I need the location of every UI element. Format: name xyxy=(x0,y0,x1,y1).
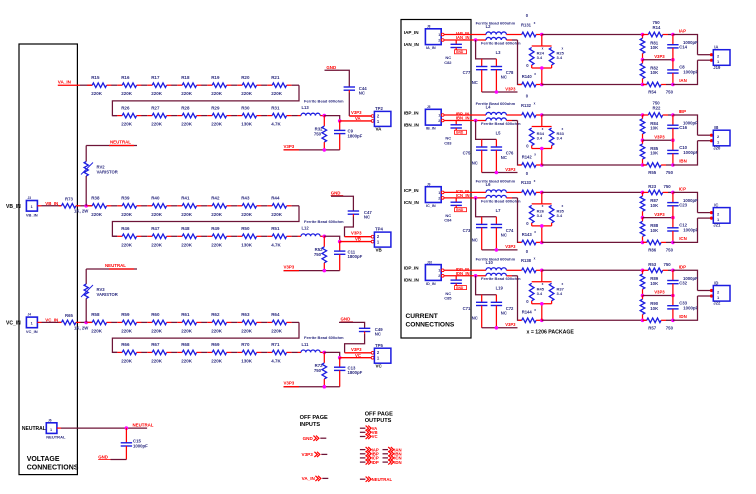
wire ICN xyxy=(512,197,518,199)
wire IDN xyxy=(512,275,518,277)
svg-text:Ferrite Bead 600ohm: Ferrite Bead 600ohm xyxy=(481,40,521,45)
wire xyxy=(141,205,147,207)
resistor R43 220K xyxy=(237,205,242,207)
svg-text:V3P3: V3P3 xyxy=(505,167,516,172)
svg-text:4.7K: 4.7K xyxy=(271,242,281,247)
svg-text:IBN_IN: IBN_IN xyxy=(404,122,420,127)
svg-text:R26: R26 xyxy=(121,105,130,110)
wire xyxy=(261,351,267,353)
wire xyxy=(201,205,207,207)
svg-text:220K: 220K xyxy=(151,358,163,363)
svg-text:220K: 220K xyxy=(151,328,163,333)
resistor R26 3.4 xyxy=(541,192,543,204)
svg-text:L10: L10 xyxy=(486,260,494,265)
svg-text:1000pF: 1000pF xyxy=(683,150,698,155)
wire xyxy=(231,235,237,237)
svg-text:R69: R69 xyxy=(211,342,220,347)
svg-text:R144: R144 xyxy=(522,310,533,315)
svg-text:220K: 220K xyxy=(241,91,253,96)
svg-text:Ferrite Bead 600ohm: Ferrite Bead 600ohm xyxy=(481,198,521,203)
resistor R138 0ohm xyxy=(522,268,536,273)
off-page output IDP xyxy=(360,461,366,463)
wire xyxy=(141,84,147,86)
svg-text:R140: R140 xyxy=(522,74,533,79)
resistor R26 220K xyxy=(117,115,122,117)
svg-text:CONNECTIONS: CONNECTIONS xyxy=(27,465,79,472)
svg-text:IC: IC xyxy=(714,203,718,208)
resistor R144 0ohm xyxy=(518,319,521,321)
resistor R47 220K xyxy=(147,235,152,237)
svg-text:220K: 220K xyxy=(271,212,283,217)
svg-text:R14: R14 xyxy=(653,25,661,30)
svg-text:R133: R133 xyxy=(521,180,532,185)
resistor R23 750 xyxy=(643,191,649,193)
node ICN junction xyxy=(540,241,544,245)
svg-text:IDP: IDP xyxy=(372,460,379,465)
resistor R82 10K xyxy=(642,60,644,64)
svg-text:C77: C77 xyxy=(463,70,471,75)
svg-text:IA_IN: IA_IN xyxy=(426,46,436,50)
wire xyxy=(201,115,207,117)
svg-text:3.4: 3.4 xyxy=(537,291,543,296)
svg-text:V3P3: V3P3 xyxy=(505,86,516,91)
resistor R57 750 xyxy=(643,319,647,321)
svg-text:VC_IN: VC_IN xyxy=(26,329,38,334)
resistor R21 220K xyxy=(267,84,272,86)
svg-text:3.4: 3.4 xyxy=(557,213,563,218)
svg-text:V3P3: V3P3 xyxy=(654,212,665,217)
wire V3P3 rail xyxy=(284,386,340,388)
resistor R87 10K xyxy=(642,192,644,196)
svg-text:R63: R63 xyxy=(241,312,250,317)
svg-text:R55: R55 xyxy=(648,170,656,175)
wire xyxy=(201,351,207,353)
svg-text:3.4: 3.4 xyxy=(557,136,563,141)
svg-text:10K: 10K xyxy=(650,45,659,50)
resistor R17 220K xyxy=(147,84,152,86)
svg-text:NEUTRAL: NEUTRAL xyxy=(133,423,154,428)
node VC junction A xyxy=(323,351,327,355)
ferrite bead L2 600ohm xyxy=(486,32,506,35)
svg-text:TP2: TP2 xyxy=(375,106,383,111)
wire xyxy=(261,205,267,207)
current connections group box xyxy=(401,20,471,339)
wire IDP_IN xyxy=(444,269,486,271)
svg-text:R51: R51 xyxy=(271,226,280,231)
svg-text:J6: J6 xyxy=(48,419,52,423)
wire IBN_IN xyxy=(444,120,486,122)
svg-text:750: 750 xyxy=(666,326,674,331)
resistor R40 220K xyxy=(147,205,152,207)
resistor R65 1K 2W xyxy=(59,321,62,323)
resistor R67 220K xyxy=(147,351,152,353)
svg-text:220K: 220K xyxy=(121,358,133,363)
resistor R31 4.7K xyxy=(267,115,272,117)
svg-text:Ferrite Bead 600ohm: Ferrite Bead 600ohm xyxy=(304,98,344,103)
svg-text:R60: R60 xyxy=(151,312,160,317)
svg-text:R54: R54 xyxy=(648,90,656,95)
wire xyxy=(112,351,117,353)
resistor R89 10K xyxy=(642,270,644,274)
svg-text:NEUTRAL: NEUTRAL xyxy=(105,263,126,268)
resistor R132 0ohm xyxy=(522,113,536,118)
svg-text:VC: VC xyxy=(355,353,361,358)
svg-text:R21: R21 xyxy=(271,75,280,80)
resistor R44 220K xyxy=(267,205,272,207)
wire xyxy=(111,321,117,323)
wire xyxy=(231,321,237,323)
svg-text:R47: R47 xyxy=(151,226,160,231)
svg-text:NC: NC xyxy=(472,316,478,321)
svg-text:220K: 220K xyxy=(181,358,193,363)
node VB junction A xyxy=(323,235,327,239)
node IDN out junction xyxy=(671,319,675,323)
svg-text:ICN_IN: ICN_IN xyxy=(404,200,420,205)
svg-text:220K: 220K xyxy=(181,242,193,247)
wire xyxy=(141,115,147,117)
ferrite bead L3 600ohm xyxy=(486,37,506,40)
svg-text:J19: J19 xyxy=(713,65,721,70)
svg-text:Ferrite Bead 600ohm: Ferrite Bead 600ohm xyxy=(481,121,521,126)
svg-text:IAP: IAP xyxy=(679,29,686,34)
wire xyxy=(141,321,147,323)
wire IBP_IN xyxy=(444,114,486,116)
wire V3P3 rail xyxy=(482,249,518,251)
node IBP junction xyxy=(540,113,544,117)
resistor R131 0ohm xyxy=(522,32,536,37)
svg-text:3.4: 3.4 xyxy=(537,136,543,141)
svg-text:220K: 220K xyxy=(211,212,223,217)
svg-text:R15: R15 xyxy=(91,75,100,80)
wire V3P3 to test point xyxy=(345,236,372,238)
svg-text:R43: R43 xyxy=(241,196,250,201)
svg-text:VB_IN: VB_IN xyxy=(26,213,38,218)
off-page output ICP xyxy=(360,457,366,459)
svg-text:x: x xyxy=(562,282,564,286)
wire ICP_IN xyxy=(444,191,486,193)
node IDN junction xyxy=(474,274,478,278)
node IDN junction xyxy=(540,319,544,323)
svg-text:1000pF: 1000pF xyxy=(683,228,698,233)
resistor R143 0ohm xyxy=(518,241,521,243)
svg-text:NEUTRAL: NEUTRAL xyxy=(22,426,46,432)
junction node VB neutral tap xyxy=(84,204,88,208)
svg-text:220K: 220K xyxy=(211,242,223,247)
off-page output VC xyxy=(360,436,366,438)
node IAP out junction xyxy=(671,33,675,37)
svg-text:VA: VA xyxy=(355,116,361,121)
svg-text:C85: C85 xyxy=(444,296,452,301)
svg-text:220K: 220K xyxy=(151,91,163,96)
node VA junction B xyxy=(338,119,342,123)
svg-text:Ferrite Bead 600ohm: Ferrite Bead 600ohm xyxy=(476,178,516,183)
wire xyxy=(171,321,177,323)
resistor R58 220K xyxy=(87,321,92,323)
svg-text:NC: NC xyxy=(501,232,507,237)
svg-text:3.4: 3.4 xyxy=(557,291,563,296)
svg-text:3.4: 3.4 xyxy=(537,55,543,60)
svg-text:4.7K: 4.7K xyxy=(271,358,281,363)
svg-text:220K: 220K xyxy=(241,212,253,217)
wire ICN xyxy=(542,241,647,243)
resistor R25 3.4 xyxy=(549,48,554,66)
node ICP out junction xyxy=(671,191,675,195)
svg-text:R57: R57 xyxy=(648,326,656,331)
wire xyxy=(261,115,267,117)
capacitor C71 NC xyxy=(476,276,497,295)
svg-text:GND: GND xyxy=(456,50,464,54)
node ICP junction xyxy=(540,191,544,195)
svg-text:V3P3: V3P3 xyxy=(351,110,362,115)
resistor R54 750 xyxy=(643,84,647,86)
svg-text:10K: 10K xyxy=(650,203,659,208)
node VA junction A xyxy=(323,114,327,118)
wire IBN xyxy=(512,120,518,122)
node IDP junction xyxy=(540,269,544,273)
svg-text:10K: 10K xyxy=(650,228,659,233)
svg-text:3.4: 3.4 xyxy=(557,55,563,60)
svg-text:R41: R41 xyxy=(181,196,190,201)
ferrite bead L5 600ohm xyxy=(486,118,506,121)
node IAN junction xyxy=(474,38,478,42)
resistor R71 4.7K xyxy=(267,351,272,353)
wire xyxy=(261,235,267,237)
svg-text:VC: VC xyxy=(376,363,383,368)
svg-text:INPUTS: INPUTS xyxy=(300,422,321,428)
wire xyxy=(171,205,177,207)
wire xyxy=(324,236,339,241)
svg-text:C75: C75 xyxy=(463,151,471,156)
resistor R133 0ohm xyxy=(522,190,536,195)
resistor R62 220K xyxy=(207,321,212,323)
svg-text:2: 2 xyxy=(438,38,440,42)
svg-text:x: x xyxy=(534,72,536,76)
svg-text:VC_IN: VC_IN xyxy=(6,321,21,327)
wire IDN xyxy=(542,319,647,321)
svg-text:NC: NC xyxy=(501,155,507,160)
capacitor C13 1800pF xyxy=(339,358,341,368)
svg-text:10K: 10K xyxy=(650,306,659,311)
svg-text:J20: J20 xyxy=(713,145,721,150)
svg-text:220K: 220K xyxy=(91,212,103,217)
wire V3P3 mid xyxy=(641,58,645,62)
ferrite bead L12 600ohm xyxy=(298,235,302,237)
svg-text:R23: R23 xyxy=(648,184,656,189)
svg-text:J10: J10 xyxy=(427,260,433,264)
voltage connections group box xyxy=(19,44,77,475)
wire IBP to connector xyxy=(673,115,698,135)
svg-text:TP5: TP5 xyxy=(375,343,383,348)
node ICN junction xyxy=(474,196,478,200)
svg-text:CONNECTIONS: CONNECTIONS xyxy=(406,322,455,329)
svg-text:1000pF: 1000pF xyxy=(683,306,698,311)
resistor R29 220K xyxy=(207,115,212,117)
svg-text:VB_IN: VB_IN xyxy=(6,204,21,210)
capacitor C8 1000pF xyxy=(672,60,674,70)
svg-text:Ferrite Bead 600ohm: Ferrite Bead 600ohm xyxy=(476,101,516,106)
resistor R61 220K xyxy=(177,321,182,323)
resistor R32 750 xyxy=(323,116,325,127)
svg-text:IA: IA xyxy=(714,45,718,50)
svg-text:220K: 220K xyxy=(181,91,193,96)
resistor R63 220K xyxy=(237,321,242,323)
svg-text:750: 750 xyxy=(314,252,322,257)
svg-text:R18: R18 xyxy=(181,75,190,80)
svg-text:VOLTAGE: VOLTAGE xyxy=(27,456,60,463)
node IAP junction xyxy=(540,33,544,37)
svg-text:C78: C78 xyxy=(506,70,514,75)
svg-text:R61: R61 xyxy=(181,312,190,317)
svg-text:V3P3: V3P3 xyxy=(654,134,665,139)
varistor RV3 xyxy=(85,269,87,284)
svg-text:R30: R30 xyxy=(241,105,250,110)
capacitor C73 NC xyxy=(476,198,497,217)
resistor R22 750 xyxy=(643,114,649,116)
wire xyxy=(141,235,147,237)
wire serpentine return xyxy=(292,205,299,207)
svg-text:NC: NC xyxy=(501,310,507,315)
wire IAP_IN xyxy=(444,34,486,36)
svg-text:R142: R142 xyxy=(522,154,533,159)
test point TP5 xyxy=(371,351,374,354)
svg-text:IDP_IN: IDP_IN xyxy=(404,266,419,271)
svg-text:V3P3: V3P3 xyxy=(351,231,362,236)
svg-text:x: x xyxy=(534,257,536,261)
svg-text:220K: 220K xyxy=(121,328,133,333)
node IAN bottom junction xyxy=(641,83,645,87)
svg-text:NC: NC xyxy=(472,238,478,243)
resistor R34 3.4 xyxy=(541,115,543,127)
svg-text:3.4: 3.4 xyxy=(537,213,543,218)
svg-text:VARISTOR: VARISTOR xyxy=(97,170,118,175)
wire NEUTRAL xyxy=(57,427,61,429)
test point TP4 xyxy=(371,235,374,238)
svg-text:1: 1 xyxy=(438,33,440,37)
capacitor C23 1000pF xyxy=(672,192,674,202)
wire xyxy=(171,235,177,237)
svg-text:2: 2 xyxy=(438,119,440,123)
svg-text:C32: C32 xyxy=(679,280,687,285)
resistor R70 130K xyxy=(237,351,242,353)
svg-text:750: 750 xyxy=(664,184,672,189)
svg-text:1: 1 xyxy=(438,191,440,195)
resistor R15 220K xyxy=(87,84,92,86)
svg-text:OFF PAGE: OFF PAGE xyxy=(365,411,393,417)
svg-text:V3P3: V3P3 xyxy=(654,54,665,59)
node IBP out junction xyxy=(671,113,675,117)
resistor R19 220K xyxy=(207,84,212,86)
wire xyxy=(111,84,117,86)
svg-text:R131: R131 xyxy=(521,22,532,27)
wire VA to test point xyxy=(340,120,372,122)
svg-text:NC: NC xyxy=(472,80,478,85)
node ICN out junction xyxy=(671,241,675,245)
svg-text:V3P3: V3P3 xyxy=(351,347,362,352)
svg-text:x: x xyxy=(534,179,536,183)
svg-text:R67: R67 xyxy=(151,342,160,347)
resistor R39 220K xyxy=(117,205,122,207)
capacitor C76 NC xyxy=(495,139,497,147)
wire xyxy=(231,351,237,353)
resistor R16 220K xyxy=(117,84,122,86)
svg-text:x: x xyxy=(562,127,564,131)
svg-text:GND: GND xyxy=(98,454,108,459)
svg-text:IB_IN: IB_IN xyxy=(426,127,436,131)
svg-text:x: x xyxy=(562,204,564,208)
svg-text:J8: J8 xyxy=(427,25,431,29)
wire xyxy=(171,115,177,117)
connector J20 IB xyxy=(710,134,713,137)
resistor R28 220K xyxy=(177,115,182,117)
svg-text:R17: R17 xyxy=(151,75,160,80)
resistor R52 750 xyxy=(323,236,325,247)
capacitor C74 NC xyxy=(495,217,497,225)
resistor R68 220K xyxy=(177,351,182,353)
svg-text:L5: L5 xyxy=(496,130,502,135)
svg-text:J9: J9 xyxy=(427,183,431,187)
off-page output NEUTRAL xyxy=(360,478,366,480)
resistor R88 10K xyxy=(642,218,644,222)
svg-text:L19: L19 xyxy=(496,286,504,291)
svg-text:Ferrite Bead 600ohm: Ferrite Bead 600ohm xyxy=(476,256,516,261)
svg-text:220K: 220K xyxy=(271,328,283,333)
capacitor C47 NC xyxy=(331,196,353,211)
node IDP to divider xyxy=(641,269,645,273)
svg-text:1: 1 xyxy=(31,205,33,209)
capacitor C85 NC to GND xyxy=(455,276,457,280)
ferrite bead L11 600ohm xyxy=(298,351,302,353)
svg-text:R46: R46 xyxy=(121,226,130,231)
svg-text:Ferrite Bead 600ohm: Ferrite Bead 600ohm xyxy=(304,335,344,340)
svg-text:GND: GND xyxy=(331,190,341,195)
ferrite bead L4 600ohm xyxy=(486,112,506,115)
svg-text:OFF PAGE: OFF PAGE xyxy=(300,415,328,421)
svg-text:VA: VA xyxy=(376,127,383,132)
wire xyxy=(201,321,207,323)
wire V3P3 mid xyxy=(641,138,645,142)
connector J22 ID xyxy=(710,289,713,292)
wire V3P3 rail xyxy=(482,327,518,329)
svg-text:ICN: ICN xyxy=(679,236,687,241)
svg-text:1800pF: 1800pF xyxy=(348,254,363,259)
svg-text:220K: 220K xyxy=(181,328,193,333)
svg-text:Ferrite Bead 600ohm: Ferrite Bead 600ohm xyxy=(481,276,521,281)
capacitor C11 1800pF xyxy=(339,242,341,252)
node NEUTRAL junction xyxy=(125,426,129,430)
svg-text:1: 1 xyxy=(50,428,52,432)
svg-text:TP4: TP4 xyxy=(375,227,383,232)
svg-text:L2: L2 xyxy=(486,24,492,29)
svg-text:IAP_IN: IAP_IN xyxy=(404,30,419,35)
off-page output ICN xyxy=(383,457,389,459)
svg-text:220K: 220K xyxy=(151,242,163,247)
svg-text:R38: R38 xyxy=(91,196,100,201)
svg-text:750: 750 xyxy=(666,248,674,253)
off-page output IAP xyxy=(360,449,366,451)
svg-text:C84: C84 xyxy=(444,218,452,223)
svg-text:GND: GND xyxy=(303,436,314,441)
svg-text:1000pF: 1000pF xyxy=(683,70,698,75)
svg-text:GND: GND xyxy=(456,131,464,135)
capacitor C12 1000pF xyxy=(672,218,674,228)
svg-text:C16: C16 xyxy=(679,125,687,130)
svg-text:VC: VC xyxy=(372,434,378,439)
svg-text:220K: 220K xyxy=(181,122,193,127)
svg-text:V3P3: V3P3 xyxy=(505,244,516,249)
resistor R18 220K xyxy=(177,84,182,86)
resistor R42 220K xyxy=(207,205,212,207)
svg-text:ICP: ICP xyxy=(679,187,686,192)
